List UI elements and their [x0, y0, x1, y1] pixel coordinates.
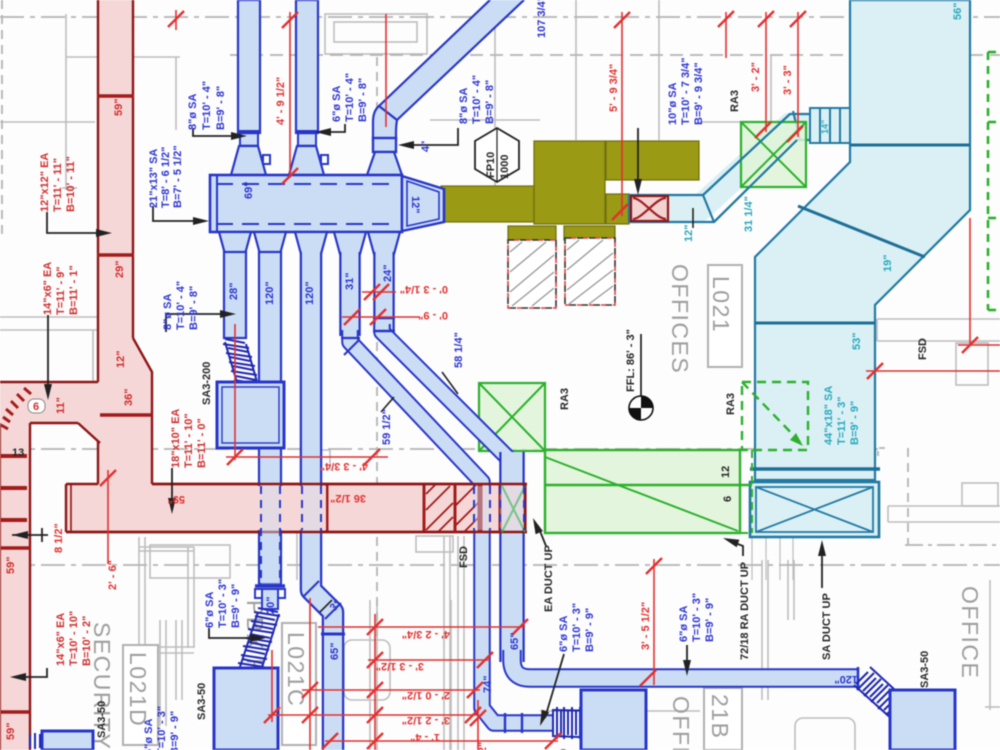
svg-text:59 1/2": 59 1/2" [381, 409, 393, 445]
green dashed riser right edge [988, 52, 1000, 310]
svg-text:3' - 2 1/2": 3' - 2 1/2" [477, 742, 489, 750]
red duct size labels [5, 99, 135, 740]
right mid wall band y318-343 [877, 318, 1000, 320]
dim ext line x375 [374, 614, 376, 750]
svg-text:3' - 5 1/2": 3' - 5 1/2" [640, 602, 652, 650]
svg-text:18"x10" EA: 18"x10" EA [170, 409, 182, 468]
teal labels [683, 3, 964, 350]
svg-text:6"ø SA: 6"ø SA [331, 86, 343, 122]
svg-text:T=10' - 3": T=10' - 3" [571, 603, 583, 652]
svg-text:T=10' - 4": T=10' - 4" [471, 75, 483, 124]
collar on duct 4 horizontal stub [504, 713, 506, 733]
wall line top-left vertical [65, 14, 67, 190]
flex duct coil 3 [552, 707, 622, 739]
column double square top [325, 14, 427, 54]
svg-text:24": 24" [382, 265, 394, 282]
dim line y715 (3'-2 1/2") [268, 714, 478, 716]
svg-text:3' - 3 1/2": 3' - 3 1/2" [376, 660, 424, 672]
trunk seam 53 [755, 322, 875, 325]
svg-text:69": 69" [243, 182, 255, 199]
svg-text:11": 11" [55, 397, 67, 414]
RA3 grille box top [741, 122, 806, 187]
wall horizontal y711 [540, 710, 581, 712]
svg-text:8"ø SA: 8"ø SA [458, 88, 470, 124]
wall verticals center-bottom x444-464 [443, 536, 445, 750]
svg-text:T=8' - 6 1/2": T=8' - 6 1/2" [160, 147, 172, 208]
teal flex transition at trunk [810, 108, 850, 143]
svg-text:6: 6 [722, 496, 734, 502]
svg-text:0' - 3 1/4": 0' - 3 1/4" [400, 283, 448, 295]
dim line y457 (4'-3 3/4") [226, 456, 388, 458]
SA plenum box [210, 175, 402, 232]
svg-text:29": 29" [114, 261, 126, 278]
wall verticals x451 bottom [450, 600, 452, 750]
svg-text:59": 59" [5, 723, 17, 740]
RA dashed duct 44x18 [742, 382, 808, 450]
wall pair x788 bottom-right [787, 560, 789, 620]
callout 8"SA duct C [458, 75, 496, 124]
duct joint y548 [0, 546, 30, 550]
duct size labels blue [228, 141, 858, 693]
svg-text:12": 12" [115, 351, 127, 368]
svg-text:6"ø SA: 6"ø SA [143, 719, 155, 750]
big teal supply trunk right [750, 0, 970, 480]
svg-text:SA3-200: SA3-200 [201, 362, 213, 405]
wall horizontal y122 center [430, 119, 540, 121]
leader 4" at duct C collar [399, 144, 401, 146]
svg-text:19": 19" [882, 255, 894, 272]
bell transition drop 2 [254, 232, 286, 254]
leader 18x10 EA down arrow [171, 468, 173, 505]
RA3 grille box left-center [479, 383, 545, 451]
callout 21x13 SA [148, 145, 184, 208]
svg-text:B=9' - 9": B=9' - 9" [230, 584, 242, 628]
svg-text:2' - 0 1/2": 2' - 0 1/2" [402, 689, 450, 701]
callout 8"SA drop duct 1 [162, 281, 200, 330]
SA plenum end transition [402, 176, 444, 231]
flex duct coil 1 [223, 339, 268, 419]
dim line y317 (0'-9") [342, 316, 420, 318]
svg-text:T=11' - 3": T=11' - 3" [836, 397, 848, 446]
EA horizontal duct re-stamp over crossing SA ducts [66, 484, 527, 532]
end cap horizontal run [857, 667, 860, 690]
svg-text:T=10' - 10": T=10' - 10" [68, 611, 80, 666]
leader 10"SA down to teal duct [637, 128, 639, 188]
callout 6"SA bottom-left partial [143, 706, 181, 750]
svg-text:21B: 21B [707, 694, 733, 739]
door rounded rect bottom-center [344, 640, 390, 700]
svg-text:L021D: L021D [125, 652, 151, 727]
wall vertical x990 [989, 580, 991, 710]
leader 6"SA right down arrow [686, 645, 688, 668]
duct joint y712 [0, 710, 30, 714]
duct joint x455 [454, 484, 457, 532]
dim line y741 (1'-4") [325, 740, 558, 742]
svg-text:8"ø SA: 8"ø SA [187, 94, 199, 130]
hidden duct dashes through EA horizontal duct [261, 486, 524, 584]
dashed wall line y55 [230, 54, 1000, 56]
flex duct coil 2 [234, 608, 280, 690]
tick at teal 12" label [692, 208, 694, 228]
svg-text:107 3/4": 107 3/4" [536, 0, 548, 38]
dim line x290 (4'-9 1/2") [289, 12, 291, 178]
duct joint y255 [97, 253, 134, 257]
olive band center [441, 186, 534, 222]
callout 6"SA riser B [331, 73, 369, 122]
svg-text:6"ø SA: 6"ø SA [204, 592, 216, 628]
duct joint y96 [97, 94, 134, 98]
corner chamfer [78, 423, 100, 443]
duct joint x424 [423, 484, 426, 532]
svg-text:B=7' - 5 1/2": B=7' - 5 1/2" [172, 145, 184, 208]
dim line x622 (5'-9 3/4") [621, 12, 623, 216]
wall pair x176 lower [175, 620, 177, 700]
svg-text:4' - 2 3/4": 4' - 2 3/4" [402, 628, 450, 640]
toilet stall walls bottom-left [138, 537, 140, 648]
svg-text:65": 65" [509, 633, 521, 650]
svg-text:OFFICE: OFFICE [668, 696, 694, 750]
trunk seam y145 [850, 144, 970, 147]
damper with cross in teal duct [631, 196, 668, 221]
svg-text:3' - 2": 3' - 2" [750, 62, 762, 92]
svg-text:SA3-50: SA3-50 [919, 651, 931, 688]
svg-text:OFFICES: OFFICES [667, 264, 693, 374]
stall step box center-bottom [416, 536, 453, 552]
dashed vertical x377 [376, 57, 378, 640]
duct joint x327 [326, 484, 329, 532]
furniture rounded rect bottom-right [795, 718, 855, 750]
callout 14x6 EA lower [55, 611, 93, 666]
teal X diffuser box [750, 482, 879, 537]
callout 14x6 EA upper [42, 262, 80, 315]
wall horizontal y122 right [700, 121, 850, 123]
bell transition drop 1 [219, 232, 251, 254]
svg-text:SA3-50: SA3-50 [96, 701, 108, 738]
svg-text:1000: 1000 [499, 155, 511, 179]
svg-text:OFFICE: OFFICE [957, 586, 983, 679]
leader 12x12 EA [47, 212, 104, 233]
bell transition drop 5 [368, 232, 400, 254]
svg-text:14": 14" [820, 120, 830, 134]
olive tab above hatch box 2 [564, 226, 615, 240]
SA drop duct 2 (120") hidden through EA duct [255, 252, 285, 609]
svg-text:T=11' - 10": T=11' - 10" [183, 413, 195, 468]
red dim texts vertical [53, 62, 794, 750]
svg-text:13: 13 [12, 447, 24, 459]
VAV box SA3-50 center [581, 690, 646, 750]
svg-text:B=9' - 9 3/4": B=9' - 9 3/4" [693, 62, 705, 125]
svg-text:8 1/2": 8 1/2" [53, 523, 65, 553]
svg-text:4": 4" [420, 141, 432, 152]
wall vertical x176 [175, 57, 177, 130]
SA duct riser B above plenum [289, 0, 328, 175]
svg-text:4' - 9 1/2": 4' - 9 1/2" [275, 77, 287, 125]
right wall box y343-385 [956, 343, 988, 385]
callout 6"SA center [558, 603, 596, 652]
svg-text:B=9' - 9": B=9' - 9" [169, 711, 181, 750]
svg-text:2' - 6": 2' - 6" [107, 560, 119, 590]
svg-text:74": 74" [482, 676, 494, 693]
dim tick x176 top [175, 10, 177, 30]
EA vertical duct top-left [97, 0, 134, 338]
trunk seam above X box [750, 467, 880, 470]
svg-text:6: 6 [33, 401, 39, 413]
SA duct riser A above plenum [231, 0, 270, 175]
dim line y690 (2'-0 1/2") [302, 689, 480, 691]
leader 14x6 EA lower left arrow [18, 668, 47, 677]
wall verticals x280/x297 below red duct [279, 533, 281, 580]
wall lines left mid y316 y330 [0, 316, 97, 318]
svg-text:B=11' - 0": B=11' - 0" [196, 418, 208, 468]
EA left vertical column [0, 423, 30, 750]
room label box L021D [123, 645, 158, 745]
svg-text:B=9' - 8": B=9' - 8" [357, 78, 369, 122]
VAV box SA3-50 right [890, 690, 955, 750]
SA drop duct 4 route (31") [339, 252, 361, 336]
VAV box SA3-200 [217, 382, 284, 448]
svg-text:T=10' - 4": T=10' - 4" [201, 81, 213, 130]
SA drop duct 1 (28") [224, 252, 246, 338]
leader 6"SA left-center [209, 628, 258, 638]
wall horizontal y122 left [0, 121, 95, 123]
svg-text:120": 120" [304, 281, 316, 305]
leader SA DUCT UP arrow [821, 548, 823, 588]
svg-text:T=10' - 4": T=10' - 4" [344, 73, 356, 122]
SA duct C diagonal from top right [367, 0, 524, 175]
EA duct transition widening [98, 338, 152, 484]
callout 8"SA riser A [187, 81, 227, 130]
svg-text:T=10' - 3": T=10' - 3" [217, 579, 229, 628]
callout 6"SA right [678, 593, 716, 642]
stair treads [0, 454, 27, 458]
column lines below teal box [752, 537, 793, 580]
teal elbow duct to offices [634, 126, 812, 208]
svg-text:12: 12 [720, 466, 732, 478]
collar on duct 5 [373, 317, 395, 319]
wall vertical x93 left mid [92, 330, 94, 382]
callout 44x18 SA teal [823, 386, 861, 445]
centerline mid y449 [0, 448, 878, 450]
svg-text:59": 59" [5, 557, 17, 574]
olive strip below right block [606, 194, 629, 224]
svg-text:T=10' - 3": T=10' - 3" [156, 706, 168, 750]
FP10-1000 hexagon tag [475, 128, 519, 182]
grid vertical x771 [770, 55, 772, 125]
wall line top-left horizontal [66, 56, 180, 58]
dim line y371 right [866, 370, 1000, 372]
svg-text:14"x6" EA: 14"x6" EA [42, 262, 54, 315]
EA duct band upper-left [0, 382, 100, 443]
svg-text:5' - 9 3/4": 5' - 9 3/4" [608, 64, 620, 112]
olive tab above hatch box 1 [508, 226, 556, 240]
duct joint y415 [98, 413, 152, 417]
wall pair x762 bottom-right [761, 560, 763, 700]
leader 72/18 RA DUCT UP [730, 541, 743, 556]
callout 18x10 EA [170, 409, 208, 468]
flex duct coil 4 [854, 667, 929, 735]
svg-text:RA3: RA3 [725, 393, 737, 415]
svg-text:6"ø SA: 6"ø SA [678, 606, 690, 642]
grid vertical x576 [575, 0, 577, 140]
svg-text:FP10: FP10 [485, 152, 497, 178]
svg-text:B=9' - 8": B=9' - 8" [484, 80, 496, 124]
dashed vertical x908 right [907, 448, 909, 545]
svg-text:FFL: 86' - 3": FFL: 86' - 3" [625, 329, 637, 392]
svg-text:120": 120" [264, 281, 276, 305]
leader 6"SA diagonal center [545, 654, 564, 718]
svg-text:T=10' - 3": T=10' - 3" [691, 593, 703, 642]
svg-text:65": 65" [329, 643, 341, 660]
svg-text:B=9' - 9": B=9' - 9" [704, 598, 716, 642]
leader 14x6 EA down arrow [47, 315, 49, 390]
joint mark duct 5 vertical [500, 518, 524, 520]
leader 8"SA to drop duct 1 [166, 314, 228, 332]
svg-text:RA3: RA3 [559, 388, 571, 410]
FFL spot elevation marker [629, 334, 653, 420]
arrowhead on RA dashed diagonal [790, 433, 803, 446]
svg-text:56": 56" [952, 3, 964, 20]
wall verticals x370/x377 bottom [369, 600, 371, 750]
EA riser section with green cross [524, 484, 527, 532]
svg-text:FSD: FSD [917, 338, 929, 360]
svg-text:T=11' - 11": T=11' - 11" [52, 158, 64, 212]
dim ext line x235 through coil1 [234, 324, 236, 460]
end cap duct 2 [255, 584, 285, 587]
flex duct coil 5 [30, 733, 40, 749]
trunk seam 19 diagonal [798, 206, 925, 257]
RA horizontal duct 12/6 [545, 450, 752, 533]
svg-text:L021: L021 [708, 276, 734, 333]
dashed corner x878 [878, 448, 885, 456]
olive block right [606, 141, 699, 180]
svg-text:36 1/2": 36 1/2" [330, 492, 366, 504]
svg-text:21"x13" SA: 21"x13" SA [148, 149, 160, 208]
centerline top y17 [0, 16, 1000, 18]
fire damper hatch section 1 [426, 484, 453, 532]
dim line x654 (3'-5 1/2") [653, 559, 655, 685]
dim line x386 [385, 14, 387, 127]
dim ext line x310 [309, 598, 311, 750]
duct joint x479 thick [478, 484, 483, 532]
elbow miter seams [703, 195, 714, 222]
svg-text:EA DUCT UP: EA DUCT UP [543, 545, 555, 612]
callout 6"SA left-center [204, 579, 242, 628]
room label box L021C [282, 623, 316, 745]
dim line y345 right [958, 344, 1000, 346]
bell transition drop 3 [295, 232, 327, 254]
svg-text:T=10' - 4": T=10' - 4" [175, 281, 187, 330]
fire damper hatch section 2 [456, 485, 478, 532]
wall tick left [62, 187, 77, 189]
svg-text:4' - 3 3/4": 4' - 3 3/4" [320, 460, 368, 472]
svg-text:8"ø SA: 8"ø SA [162, 294, 174, 330]
svg-text:B=10' - 11": B=10' - 11" [65, 156, 77, 212]
svg-text:28": 28" [228, 283, 240, 300]
dim ext line x108 (2'-6") [107, 470, 109, 564]
svg-text:20": 20" [265, 597, 277, 614]
svg-text:SA3-50: SA3-50 [196, 683, 208, 720]
dim line y627 (4'-2 3/4") [318, 626, 525, 628]
dim line x766 (3'-2") [765, 12, 767, 132]
dim ext line x478 [477, 700, 479, 750]
duct joint x500 [499, 484, 502, 532]
svg-text:1' - 4": 1' - 4" [410, 731, 440, 743]
wall pair x160 [159, 620, 161, 726]
joint marks duct 3 jog [303, 581, 319, 597]
svg-text:3' - 3": 3' - 3" [782, 65, 794, 95]
callout 10"SA [667, 58, 705, 125]
svg-text:6"ø SA: 6"ø SA [558, 616, 570, 652]
leader 21x13 SA to plenum [153, 206, 200, 221]
leader 8 1/2" tick [12, 534, 48, 536]
joint marks duct 4 elbow [341, 337, 360, 339]
dim line x970 right [969, 218, 971, 345]
room label box L021 [708, 265, 742, 367]
svg-text:FSD: FSD [458, 546, 470, 568]
svg-text:B=9' - 8": B=9' - 8" [188, 286, 200, 330]
dim line y660 (3'-3 1/2") [368, 659, 490, 661]
olive block tall [534, 141, 605, 224]
tick at duct3 jog 3" label [320, 600, 332, 612]
wall box right of SA3-200 [321, 450, 330, 470]
EA horizontal duct [66, 484, 527, 532]
svg-text:53": 53" [851, 333, 863, 350]
leader 8"SA to duct C [404, 128, 458, 145]
grid vertical x495 [494, 0, 496, 186]
grid vertical x659 [658, 0, 660, 140]
VAV box SA3-50 left [214, 668, 278, 750]
red dim texts upside down [168, 283, 450, 743]
SA drop duct 5 route (24") [373, 252, 395, 330]
dashed horizontal y545 right [905, 544, 1000, 546]
svg-text:31 1/4": 31 1/4" [743, 196, 755, 232]
svg-text:B=9' - 9": B=9' - 9" [849, 401, 861, 445]
svg-text:58 1/4": 58 1/4" [453, 332, 465, 368]
label 6 on white pill [28, 399, 45, 413]
dim tick x726 top [725, 12, 727, 58]
dim line y292 (0'-3 1/4") [362, 291, 396, 293]
green cross at EA riser [502, 486, 525, 532]
hatch box 2 [565, 238, 615, 305]
svg-text:59": 59" [113, 99, 125, 116]
leader 58 1/4" diagonal [442, 372, 458, 394]
svg-text:59": 59" [168, 493, 185, 505]
svg-text:14"x6" EA: 14"x6" EA [55, 613, 67, 666]
hatch box 1 [508, 240, 556, 308]
svg-text:31": 31" [344, 273, 356, 290]
bell transition drop 4 [334, 232, 366, 254]
svg-text:B=9' - 8": B=9' - 8" [215, 86, 227, 130]
centerline low y565 [0, 564, 1000, 566]
svg-text:12": 12" [409, 196, 421, 213]
svg-text:12"x12" EA: 12"x12" EA [39, 153, 51, 212]
svg-text:B=11' - 1": B=11' - 1" [68, 265, 80, 315]
svg-text:SA DUCT UP: SA DUCT UP [821, 593, 833, 660]
room label box L021B bottom [704, 688, 742, 750]
svg-text:B=9' - 9": B=9' - 9" [584, 608, 596, 652]
leader 6"SA to riser B [322, 124, 345, 132]
leader EA DUCT UP arrow [538, 526, 546, 546]
svg-text:0' - 9": 0' - 9" [418, 309, 448, 321]
dim ext line x272 [271, 650, 273, 722]
flex connection arc fan top-left [1, 388, 31, 429]
small SA box bottom far left [42, 731, 93, 750]
right wall band y505-523 [888, 505, 1000, 507]
svg-text:B=10' - 2": B=10' - 2" [81, 616, 93, 666]
dimension tick marks [168, 11, 184, 27]
SA drop duct 3 route with jog [311, 252, 333, 750]
right wall box y483 [962, 483, 998, 506]
